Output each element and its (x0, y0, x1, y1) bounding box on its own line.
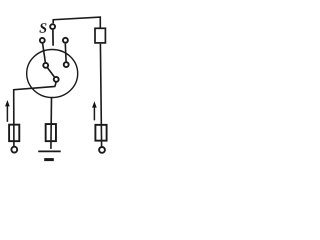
resistor R2 left (9, 125, 19, 141)
terminal S (50, 24, 55, 29)
stud left inner (43, 63, 48, 68)
wire pivot stem down (55, 82, 56, 86)
wire stem from terminal S down toward wiper (52, 30, 54, 46)
ground (38, 150, 61, 152)
wire left branch horizontal and down through R2 to terminal (14, 86, 56, 147)
contact left (on rim) (40, 38, 45, 43)
wiper pivot (54, 77, 59, 82)
current arrow right (93, 106, 95, 121)
resistor R4 right (95, 125, 106, 141)
label S (39, 23, 46, 33)
terminal right (99, 147, 105, 153)
resistor R3 middle (46, 124, 56, 141)
wire left fixed-contact stem (43, 44, 46, 63)
resistor R1 top right (95, 28, 105, 43)
switch (rotary) body (27, 50, 78, 98)
wire R1 down through R4 to terminal (100, 44, 101, 147)
contact right (on rim) (63, 38, 68, 43)
wire switch bottom down through R3 to ground (50, 97, 53, 148)
wire top bus from switch terminal S up and right to R1 (53, 17, 100, 28)
terminal left (11, 147, 17, 153)
wire right fixed-contact stem (64, 44, 67, 62)
wiper bridge (46, 65, 57, 79)
stud right inner (64, 62, 69, 67)
current arrow left (6, 105, 8, 122)
